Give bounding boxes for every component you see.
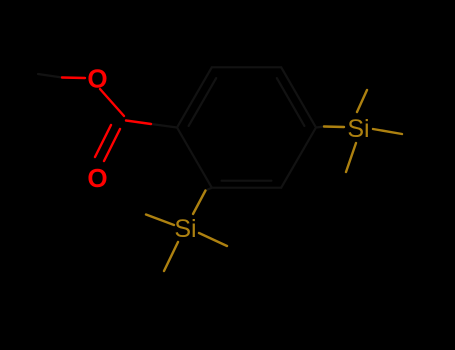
wire red half bond carbonyl C to C1 (126, 121, 151, 125)
wire bond O to carbonyl C (100, 89, 124, 116)
wire inner double bond C4=C5 (277, 78, 305, 126)
wire right Si methyl up (357, 90, 367, 112)
wire gray half bond C4 to right Si (316, 127, 324, 128)
wire inner double bond C2=C3 (222, 180, 272, 182)
wire right Si methyl down (346, 143, 356, 172)
wire ring edge C1-C6 (NW) (177, 67, 212, 127)
svg-text:Si: Si (174, 215, 196, 243)
ester group red (62, 78, 151, 162)
wire ring edge C3-C2 (bottom) (212, 187, 281, 189)
left trimethylsilyl bonds (146, 191, 227, 272)
wire ring edge C4-C3 (SE) (281, 128, 316, 188)
wire ring edge C5-C4 (NE) (281, 67, 316, 127)
wire inner double bond C1=C6 (189, 78, 217, 126)
wire left Si methyl right (199, 233, 227, 246)
wire gold bond right Si to ring C4 (324, 125, 344, 128)
wire gold bond left Si to ring C2 (193, 191, 206, 215)
wire left Si methyl down-left (164, 242, 178, 271)
svg-text:O: O (87, 163, 107, 193)
svg-text:O: O (87, 63, 107, 93)
right trimethylsilyl bonds (324, 90, 402, 172)
wire gray half bond C2 to left Si (206, 188, 212, 191)
benzene ring C1-C6 outline (38, 67, 324, 190)
wire left Si methyl left (146, 215, 174, 226)
wire ring edge C2-C1 (SW) (177, 128, 212, 188)
wire right Si methyl right (373, 129, 402, 134)
wire gray half bond C1 to ester carbonyl C (151, 124, 177, 128)
wire gray half bond methyl CH3 to ester O (38, 74, 62, 78)
wire red half bond CH3-O (62, 76, 85, 79)
wire ring edge C6-C5 (top) (212, 66, 281, 68)
wire C=O double bond line 1 (95, 125, 111, 157)
svg-text:Si: Si (347, 115, 369, 143)
wire C=O double bond line 2 (104, 129, 120, 161)
